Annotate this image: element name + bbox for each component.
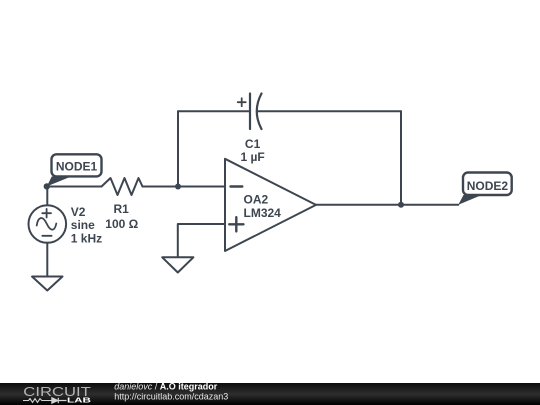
op-amp non-inverting input marker [229,217,243,231]
svg-text:NODE1: NODE1 [56,160,98,174]
svg-text:OA2: OA2 [244,192,269,206]
wire V2 top [46,187,48,206]
svg-text:1 kHz: 1 kHz [71,232,102,246]
resistor R1 [102,178,143,195]
wire feedback left vertical [177,111,179,186]
footer bar [0,383,540,405]
wire main input (NODE1 to op-amp inverting input) [47,186,225,188]
svg-text:NODE2: NODE2 [467,179,509,193]
logo waveform resistor zigzag [23,399,52,403]
wire V2 bottom [46,243,48,277]
junction node dot (output / feedback) [398,202,404,208]
node NODE1 flag [47,154,102,186]
svg-text:1 µF: 1 µF [240,150,264,164]
capacitor C1 polarity plus marker [238,98,246,106]
voltage source V2 minus marker [42,235,51,237]
node NODE2 flag [458,173,511,205]
op-amp inverting input marker [231,185,243,187]
svg-text:V2: V2 [71,205,86,219]
voltage source V2 plus marker [42,209,51,218]
wire feedback right vertical [400,111,402,204]
wire feedback top horizontal (capacitor to right) [258,110,401,112]
op-amp OA2 triangle [225,159,316,251]
svg-text:http://circuitlab.com/cdazan3: http://circuitlab.com/cdazan3 [114,391,228,401]
svg-text:LM324: LM324 [244,206,282,220]
wire feedback top horizontal (to capacitor) [178,110,250,112]
svg-text:danielovc / A.O itegrador: danielovc / A.O itegrador [114,381,218,391]
voltage source V2 sine symbol [37,218,57,230]
wire output (op-amp to NODE2) [316,204,458,206]
svg-text:100 Ω: 100 Ω [105,217,138,231]
capacitor C1 [250,94,262,130]
wire non-inverting input to ground [178,224,225,257]
voltage source V2 circle [29,205,67,243]
svg-text:sine: sine [71,218,95,232]
node dot NODE1 [44,183,50,189]
logo waveform diode [52,398,67,404]
svg-text:R1: R1 [114,202,130,216]
svg-text:LAB: LAB [67,396,92,405]
ground (V2) [32,277,63,291]
junction node dot (R1 / feedback) [175,184,181,190]
ground (op-amp non-inverting input) [162,257,193,272]
